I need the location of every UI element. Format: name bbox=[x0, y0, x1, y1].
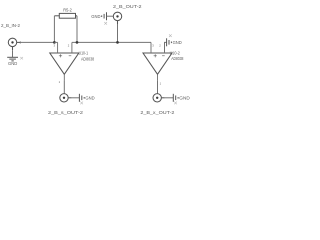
junction feedback-output bbox=[76, 41, 79, 44]
resistor R5-2 bbox=[54, 13, 77, 18]
wire feedback right bbox=[76, 16, 78, 43]
wire input jog into pin bbox=[54, 41, 57, 43]
connector P2 2_B_OUT-2 bbox=[113, 12, 121, 24]
op-amp U10-2 bbox=[143, 42, 172, 85]
svg-text:R5-2: R5-2 bbox=[63, 7, 72, 12]
wire U10-2 ref pin up bbox=[165, 42, 167, 53]
junction input node bbox=[53, 41, 56, 44]
ground input shell bbox=[7, 57, 18, 61]
wire output net bbox=[72, 41, 151, 43]
wire bottom-right shell bbox=[165, 97, 173, 99]
op-amp U10-1 bbox=[50, 42, 79, 84]
ground bottom left bbox=[79, 94, 84, 102]
wire OUT shell to connector bbox=[107, 15, 114, 17]
connector P1 2_B_IN-2 bbox=[8, 38, 20, 50]
svg-text:GND: GND bbox=[85, 96, 94, 101]
connector P3 2_B_s_OUT-2 bbox=[60, 94, 72, 102]
svg-text:GND: GND bbox=[173, 40, 182, 45]
svg-text:2_B_x_OUT-2: 2_B_x_OUT-2 bbox=[140, 110, 174, 116]
connector P4 2_B_x_OUT-2 bbox=[153, 94, 165, 102]
ground U10-2 ref bbox=[167, 38, 172, 46]
svg-text:2_B_OUT-2: 2_B_OUT-2 bbox=[113, 4, 142, 10]
svg-text:2_B_s_OUT-2: 2_B_s_OUT-2 bbox=[48, 110, 83, 116]
junction OUT drop bbox=[116, 41, 119, 44]
wire U10-2 output drop bbox=[157, 81, 159, 94]
wire bottom-left shell bbox=[72, 97, 80, 99]
svg-text:AD8038: AD8038 bbox=[171, 56, 184, 61]
wire OUT drop bbox=[117, 24, 119, 42]
svg-text:2_B_IN-2: 2_B_IN-2 bbox=[1, 23, 20, 28]
svg-text:AD8038: AD8038 bbox=[81, 57, 95, 62]
svg-text:GND: GND bbox=[8, 61, 17, 66]
wire U10-1 output drop bbox=[63, 81, 65, 94]
ground bottom right bbox=[173, 94, 178, 102]
svg-text:U10-1: U10-1 bbox=[79, 51, 89, 56]
svg-text:GND: GND bbox=[179, 96, 190, 101]
wire input to U10-1 bbox=[20, 41, 54, 43]
wire input shell drop bbox=[12, 50, 14, 57]
svg-text:GND: GND bbox=[91, 14, 100, 19]
wire feedback left bbox=[53, 16, 55, 43]
